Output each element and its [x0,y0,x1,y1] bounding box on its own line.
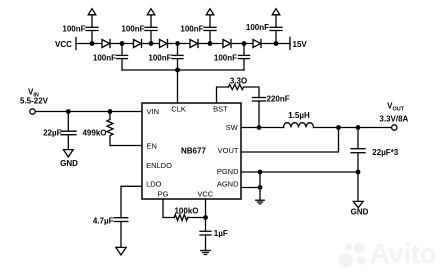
supply arrow 2 [147,9,155,15]
wire output [314,127,392,129]
svg-text:PG: PG [158,189,169,198]
wire CLK drop [177,70,179,103]
VOUT terminal [392,125,397,130]
svg-text:BST: BST [213,104,228,113]
ground GND input [63,150,73,157]
svg-text:5.5-22V: 5.5-22V [20,97,49,106]
svg-text:100nF: 100nF [246,23,269,32]
svg-text:100nF: 100nF [214,54,237,63]
node VIN junctions [66,109,113,114]
diode D2 [134,40,142,48]
svg-text:4.7µF: 4.7µF [93,217,114,226]
ground GND ldo [116,247,126,255]
capacitor C3 100nF (pump top 3) [204,15,216,44]
svg-text:100nF: 100nF [148,54,171,63]
node SW/output junctions [257,125,361,190]
capacitor C8 220nF [253,98,266,128]
capacitor C5 100nF (pump bottom 1) [117,44,128,71]
wire VCC charge-pump rail [76,43,290,45]
svg-text:GND: GND [60,159,78,168]
capacitor C2 100nF (pump top 2) [145,15,157,44]
diode D6 [253,40,261,48]
wire SW [241,127,284,129]
svg-text:100nF: 100nF [180,25,203,34]
node pump rail junctions [90,41,279,72]
svg-text:1.5µH: 1.5µH [288,111,310,120]
wire EN [110,145,142,147]
wire PG to VCC [188,217,206,219]
svg-text:CLK: CLK [171,104,186,113]
wire LDO [121,186,142,217]
svg-text:LDO: LDO [146,180,162,189]
capacitor C12 22uF*3 [351,128,365,173]
resistor R1 3.3ohm [229,84,244,89]
supply arrow 4 [272,9,280,15]
wire CLK bottom rail [122,69,244,71]
svg-text:100kO: 100kO [174,207,198,216]
svg-text:ENLDO: ENLDO [146,161,172,170]
wire VCC pin [205,199,207,231]
svg-text:VOUT: VOUT [218,146,239,155]
diode D5 [223,40,231,48]
watermark logo circles [338,243,365,268]
svg-text:VCC: VCC [197,189,213,198]
svg-text:1µF: 1µF [214,229,228,238]
svg-text:22µF*3: 22µF*3 [372,148,399,157]
VCC terminal [75,38,77,50]
svg-text:100nF: 100nF [62,25,85,34]
wire VIN [35,111,142,113]
wire analog ground tie [259,172,261,200]
wire BST lead [217,87,229,103]
svg-text:100nF: 100nF [93,54,116,63]
svg-text:AGND: AGND [217,180,239,189]
wire PGND [241,171,358,173]
capacitor C6 100nF (pump bottom 2) [172,44,183,71]
svg-text:GND: GND [351,208,369,217]
svg-text:VOUT: VOUT [387,102,405,113]
resistor R2 499k [107,112,113,146]
svg-text:SW: SW [226,123,239,132]
diode D1 [102,40,110,48]
svg-text:100nF: 100nF [121,25,144,34]
svg-text:15V: 15V [293,40,308,49]
capacitor C4 100nF (pump top 4) [270,15,282,44]
wire AGND [241,187,260,189]
capacitor C9 22uF [61,112,76,150]
ground vcc bars [201,251,211,255]
ground GND output [353,201,363,207]
diode D4 [190,40,198,48]
capacitor C10 4.7uF [114,218,128,248]
wire PG [163,199,174,218]
diode D3 [160,40,168,48]
VIN input terminal [30,109,35,114]
wire VOUT pin branch [241,128,339,153]
svg-text:NB677: NB677 [181,146,206,155]
resistor R3 100k [174,215,188,221]
capacitor C7 100nF (pump bottom 3) [239,44,250,71]
inductor L1 1.5uH [284,123,314,128]
supply arrow 3 [206,9,214,15]
wire output gnd drop [357,172,359,201]
svg-text:EN: EN [147,141,157,150]
svg-text:3.3V/8A: 3.3V/8A [379,114,408,123]
svg-text:PGND: PGND [217,167,239,176]
svg-text:VCC: VCC [55,40,72,49]
svg-text:22µF: 22µF [43,129,62,138]
15V terminal [289,38,291,50]
svg-text:3.3O: 3.3O [230,77,247,86]
wire BST to bootstrap cap [244,87,260,98]
svg-text:Avito: Avito [370,238,437,269]
svg-text:220nF: 220nF [267,95,290,104]
capacitor C11 1uF [200,231,211,250]
node PG-VCC junction [203,215,208,220]
supply arrow 1 [88,9,96,15]
svg-text:499kO: 499kO [82,129,106,138]
svg-text:VIN: VIN [147,107,160,116]
ground agnd bars [256,200,265,204]
op-amp U1 NB677 box [142,103,241,199]
capacitor C1 100nF (pump top 1) [86,15,98,44]
